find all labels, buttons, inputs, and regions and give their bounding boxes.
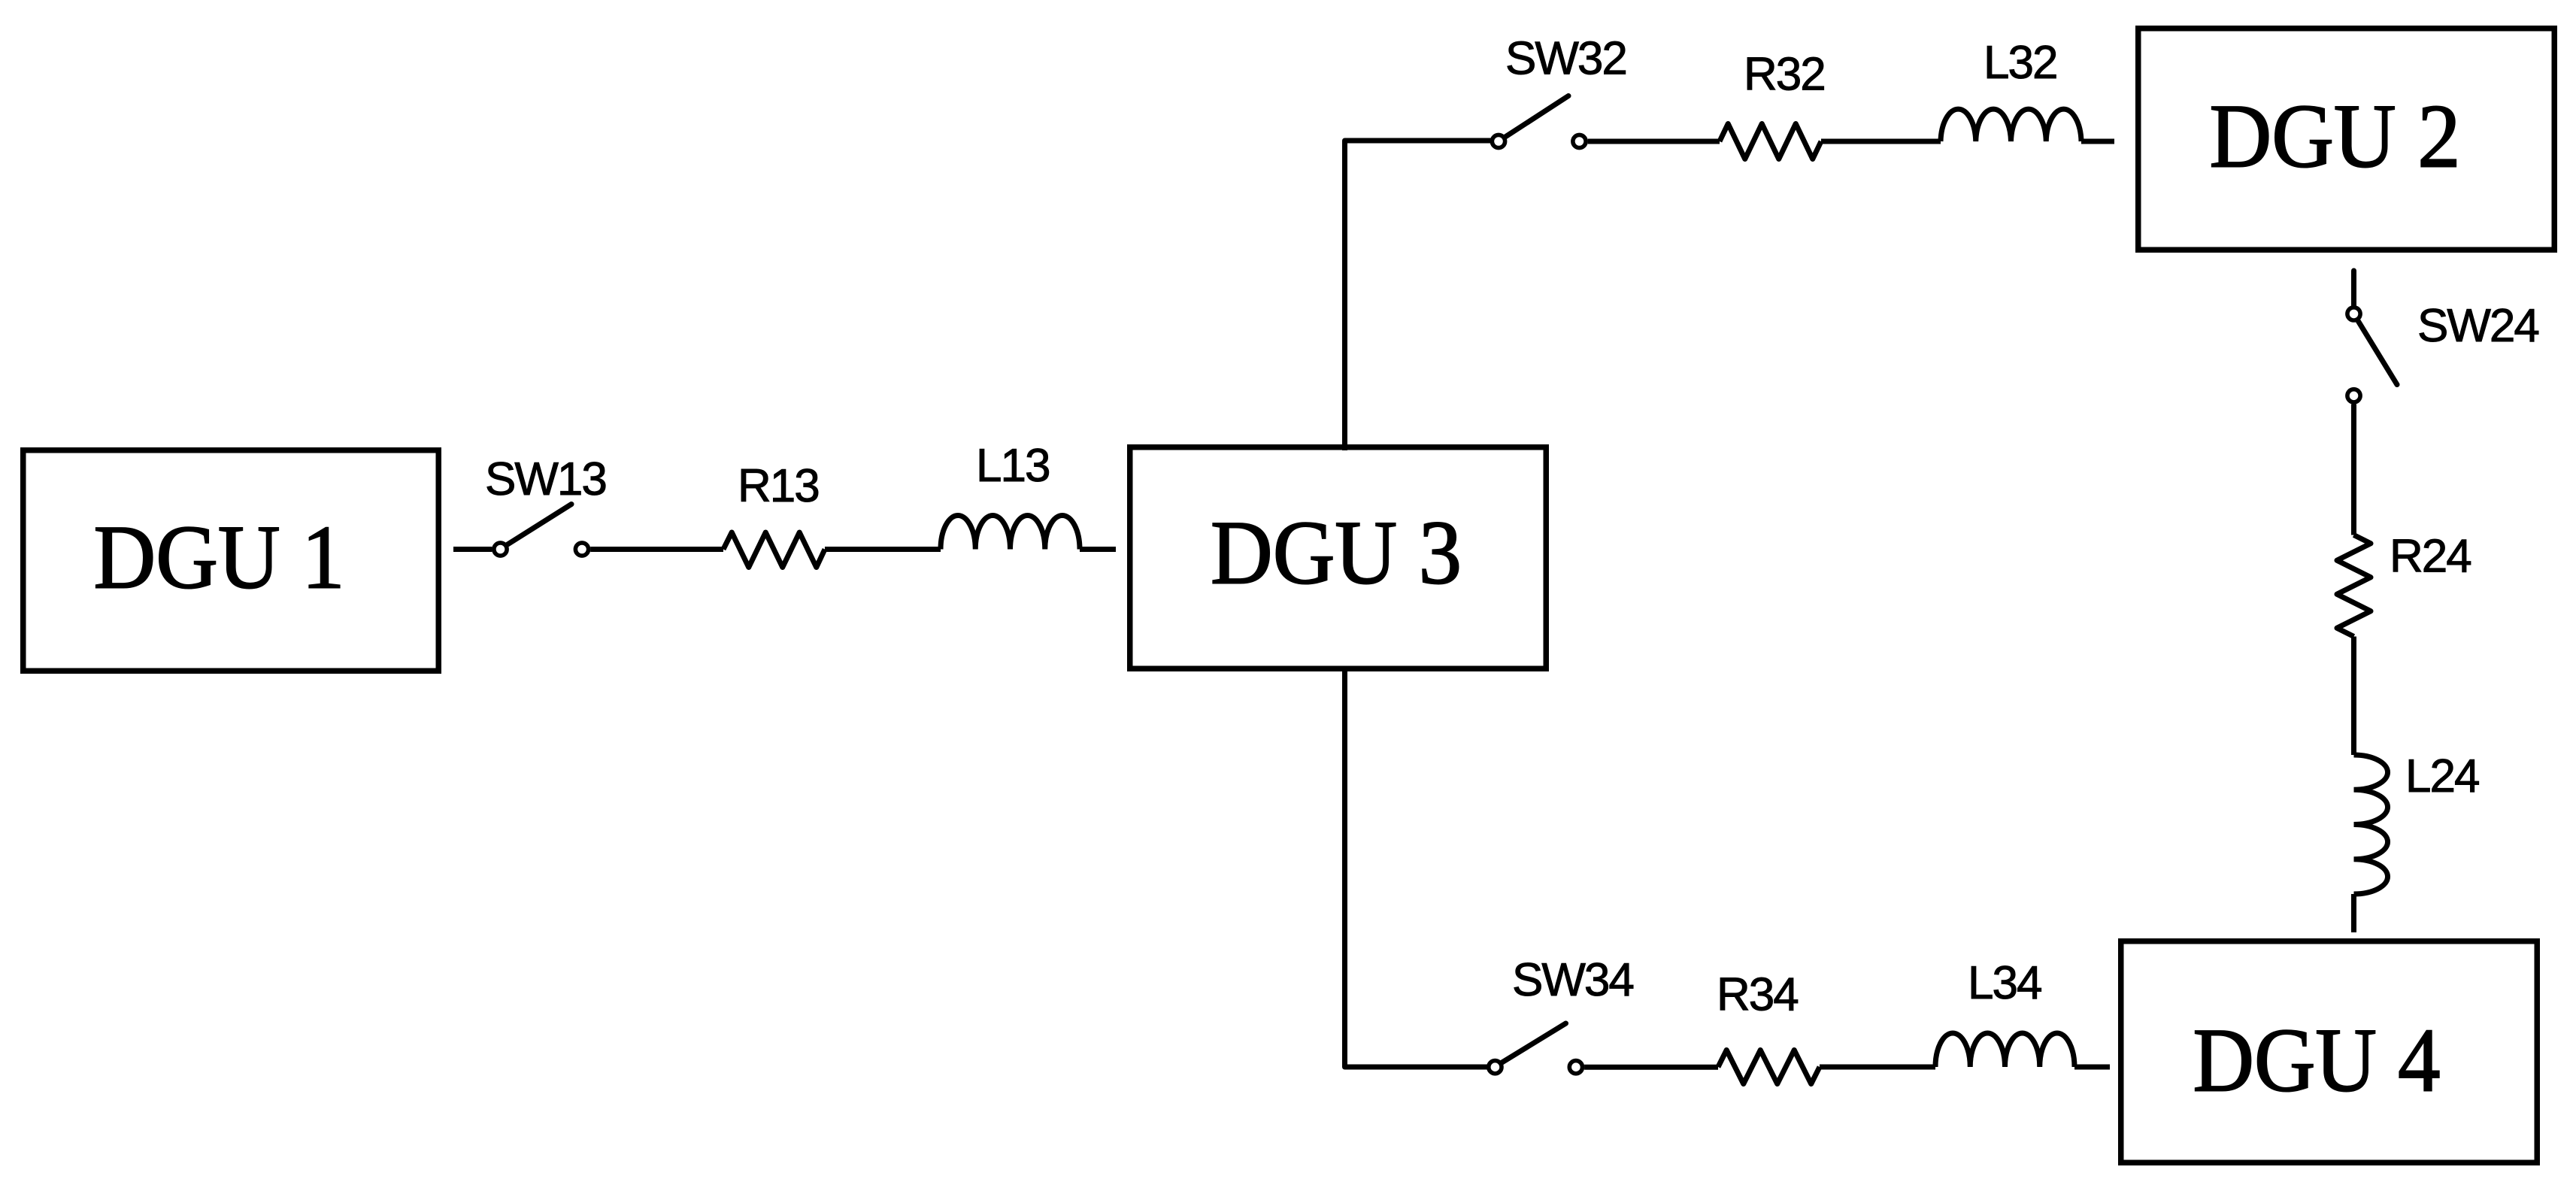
switch SW24 [2347,308,2397,402]
block DGU3 [1130,447,1547,669]
svg-text:R34: R34 [1717,969,1798,1021]
resistor R24 [2337,535,2371,637]
block DGU2 [2138,29,2555,250]
block DGU1 [23,450,439,671]
wire L32 to DGU2 [2081,139,2114,144]
wire DGU1 to SW13 [453,547,492,552]
switch SW32 [1492,96,1586,148]
wire SW13 to R13 [590,547,723,552]
label L32 [1984,37,2056,89]
label R24 [2390,531,2471,583]
wire SW32 to R32 [1588,139,1720,144]
wire DGU3 bottom to SW34 corner [1345,666,1489,1067]
label SW13 [485,453,606,505]
resistor R34 [1718,1050,1820,1084]
wire SW34 to R34 [1584,1065,1718,1070]
svg-text:SW34: SW34 [1512,954,1633,1006]
label DGU 3 [1211,503,1462,604]
label SW24 [2417,300,2538,352]
svg-text:L13: L13 [976,440,1049,492]
wire L24 to DGU4 [2351,894,2356,932]
resistor R32 [1720,124,1821,159]
block DGU4 [2121,941,2538,1163]
label R34 [1717,969,1798,1021]
svg-text:L24: L24 [2405,750,2479,802]
wire L34 to DGU4 [2074,1065,2110,1070]
inductor L34 [1935,1033,2074,1067]
label R13 [738,460,819,512]
svg-text:DGU 4: DGU 4 [2193,1011,2441,1111]
svg-text:R32: R32 [1744,49,1825,101]
switch SW34 [1489,1023,1583,1074]
svg-text:R13: R13 [738,460,819,512]
label SW32 [1505,33,1626,85]
label R32 [1744,49,1825,101]
resistor R13 [723,532,825,568]
label DGU 4 [2193,1011,2441,1111]
svg-text:L32: L32 [1984,37,2056,89]
wire DGU2 bottom to SW24 [2351,271,2356,305]
svg-text:SW13: SW13 [485,453,606,505]
wire L13 to DGU3 [1080,547,1116,552]
wire R13 to L13 [825,547,941,552]
svg-text:DGU 2: DGU 2 [2210,86,2461,187]
label L24 [2405,750,2479,802]
wire R32 to L32 [1821,139,1941,144]
svg-text:R24: R24 [2390,531,2471,583]
svg-text:DGU 3: DGU 3 [1211,503,1462,604]
label SW34 [1512,954,1633,1006]
label DGU 1 [94,508,345,608]
label L13 [976,440,1049,492]
label DGU 2 [2210,86,2461,187]
svg-text:SW24: SW24 [2417,300,2538,352]
wire SW24 to R24 [2351,405,2356,535]
switch SW13 [494,505,589,556]
inductor L24 [2354,755,2388,894]
inductor L32 [1941,109,2081,141]
svg-text:SW32: SW32 [1505,33,1626,85]
label L34 [1968,957,2041,1009]
wire R34 to L34 [1820,1065,1935,1070]
wire R24 to L24 [2351,637,2356,756]
svg-text:L34: L34 [1968,957,2041,1009]
inductor L13 [941,515,1080,549]
svg-text:DGU 1: DGU 1 [94,508,345,608]
wire DGU3 top to SW32 corner [1345,141,1493,450]
